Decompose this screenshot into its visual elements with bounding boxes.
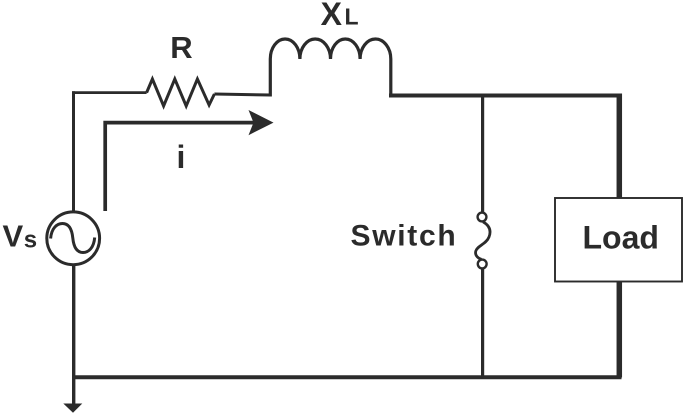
wire: between resistor and inductor: [214, 94, 270, 95]
resistor R: [147, 79, 215, 106]
voltage source sine wave: [51, 224, 95, 253]
wire: from source bottom to ground: [72, 265, 75, 405]
switch S-curve blade: [476, 222, 490, 259]
wire: top horizontal from inductor to right corner: [389, 94, 622, 98]
load box: [555, 198, 682, 282]
wire: bottom horizontal: [72, 375, 622, 379]
svg-text:i: i: [177, 139, 186, 175]
switch upper contact circle: [478, 213, 487, 222]
svg-text:L: L: [345, 4, 359, 30]
switch lower contact circle: [478, 260, 487, 269]
inductor XL: [270, 39, 391, 97]
svg-text:V: V: [3, 218, 24, 253]
wire: switch branch upper: [481, 94, 484, 213]
svg-text:Switch: Switch: [351, 219, 458, 252]
wire: top-left horizontal from corner to resistor: [72, 91, 147, 94]
svg-text:R: R: [170, 30, 192, 65]
svg-text:Load: Load: [583, 220, 659, 256]
wire: left vertical from top wire down to source top: [72, 91, 75, 211]
current arrow i (shaft): [105, 123, 258, 211]
svg-text:s: s: [24, 226, 37, 253]
voltage source Vs circle: [47, 212, 100, 265]
wire: switch branch lower: [481, 269, 484, 378]
wire: right vertical (load branch): [617, 94, 623, 378]
svg-text:X: X: [321, 0, 343, 32]
current arrow i (head): [249, 110, 274, 135]
ground arrow: [63, 404, 82, 413]
